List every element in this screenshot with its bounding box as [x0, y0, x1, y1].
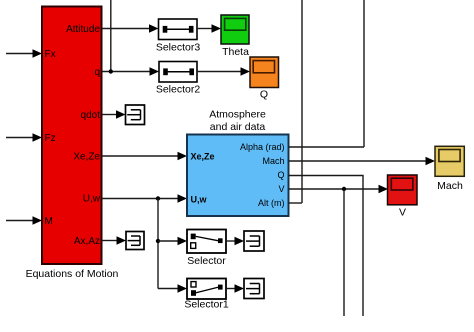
- selector block: [187, 230, 226, 254]
- wire Mach to Mach scope: [289, 160, 427, 162]
- selector2 block: [159, 62, 197, 83]
- wire V branch down: [343, 189, 345, 316]
- wire Selector to terminator: [226, 240, 235, 242]
- svg-text:V: V: [278, 184, 284, 194]
- junction V: [342, 187, 346, 191]
- wire input Fz: [6, 137, 33, 139]
- svg-text:Q: Q: [277, 170, 284, 180]
- svg-text:Xe,Ze: Xe,Ze: [73, 152, 100, 163]
- wire Selector3 to Theta: [197, 28, 212, 30]
- svg-text:V: V: [399, 207, 406, 219]
- svg-text:Selector: Selector: [187, 255, 226, 267]
- svg-text:Fz: Fz: [45, 133, 56, 144]
- svg-text:qdot: qdot: [81, 110, 101, 121]
- junction q: [109, 69, 113, 73]
- svg-text:Mach: Mach: [437, 180, 463, 192]
- mach scope block: [435, 146, 464, 176]
- wire Ax,Az: [102, 240, 117, 242]
- svg-text:M: M: [45, 216, 53, 227]
- wire branch to Selector1: [158, 288, 178, 290]
- svg-text:Attitude: Attitude: [66, 24, 100, 35]
- wire U,w: [102, 198, 178, 200]
- svg-text:U,w: U,w: [191, 194, 208, 204]
- wire U,w branch down to selectors: [157, 199, 159, 289]
- wire input M: [6, 220, 33, 222]
- svg-text:Fx: Fx: [45, 49, 56, 60]
- wire Alt (m) horizontal: [289, 202, 303, 204]
- wire qdot: [102, 114, 117, 116]
- svg-text:U,w: U,w: [83, 194, 101, 205]
- svg-text:Selector1: Selector1: [184, 299, 229, 311]
- svg-text:Equations of Motion: Equations of Motion: [26, 268, 119, 280]
- junction selector branch: [156, 239, 160, 243]
- v scope block: [388, 175, 418, 205]
- wire input Fx: [6, 53, 33, 55]
- svg-text:Ax,Az: Ax,Az: [74, 236, 100, 247]
- svg-text:Atmosphere: Atmosphere: [209, 109, 266, 121]
- wire Alpha (rad) horizontal: [289, 146, 365, 148]
- junction U,w: [156, 196, 160, 200]
- svg-text:Alt (m): Alt (m): [258, 198, 285, 208]
- svg-text:Alpha (rad): Alpha (rad): [240, 142, 285, 152]
- svg-text:Theta: Theta: [222, 46, 249, 58]
- selector1 block: [187, 279, 226, 300]
- wire q: [102, 71, 150, 73]
- equations-of-motion block: [42, 7, 102, 265]
- svg-text:Selector2: Selector2: [156, 84, 201, 96]
- wire V to V scope: [289, 188, 380, 190]
- wire Alt (m) vertical up: [301, 0, 303, 203]
- wire Alpha (rad) vertical up: [363, 0, 365, 147]
- wire branch to Selector: [158, 240, 178, 242]
- terminator Ax,Az: [126, 232, 144, 250]
- svg-text:q: q: [94, 67, 100, 78]
- wire Q output down: [289, 176, 364, 317]
- svg-text:and air data: and air data: [210, 121, 266, 133]
- terminator Selector1: [244, 279, 264, 299]
- atmosphere block: [187, 135, 289, 217]
- wire Attitude: [102, 28, 150, 30]
- selector3 block: [159, 19, 198, 40]
- terminator Selector: [244, 231, 264, 251]
- wire Selector2 to Q scope: [197, 71, 241, 73]
- svg-text:Mach: Mach: [262, 156, 284, 166]
- q scope block: [250, 57, 279, 88]
- theta scope block: [221, 15, 249, 44]
- svg-text:Xe,Ze: Xe,Ze: [191, 151, 215, 161]
- wire Xe,Ze: [102, 155, 178, 157]
- terminator qdot: [126, 105, 145, 125]
- svg-text:Selector3: Selector3: [156, 42, 201, 54]
- wire q branch up: [110, 0, 112, 72]
- wire Selector1 to terminator: [226, 288, 235, 290]
- svg-text:Q: Q: [260, 89, 268, 101]
